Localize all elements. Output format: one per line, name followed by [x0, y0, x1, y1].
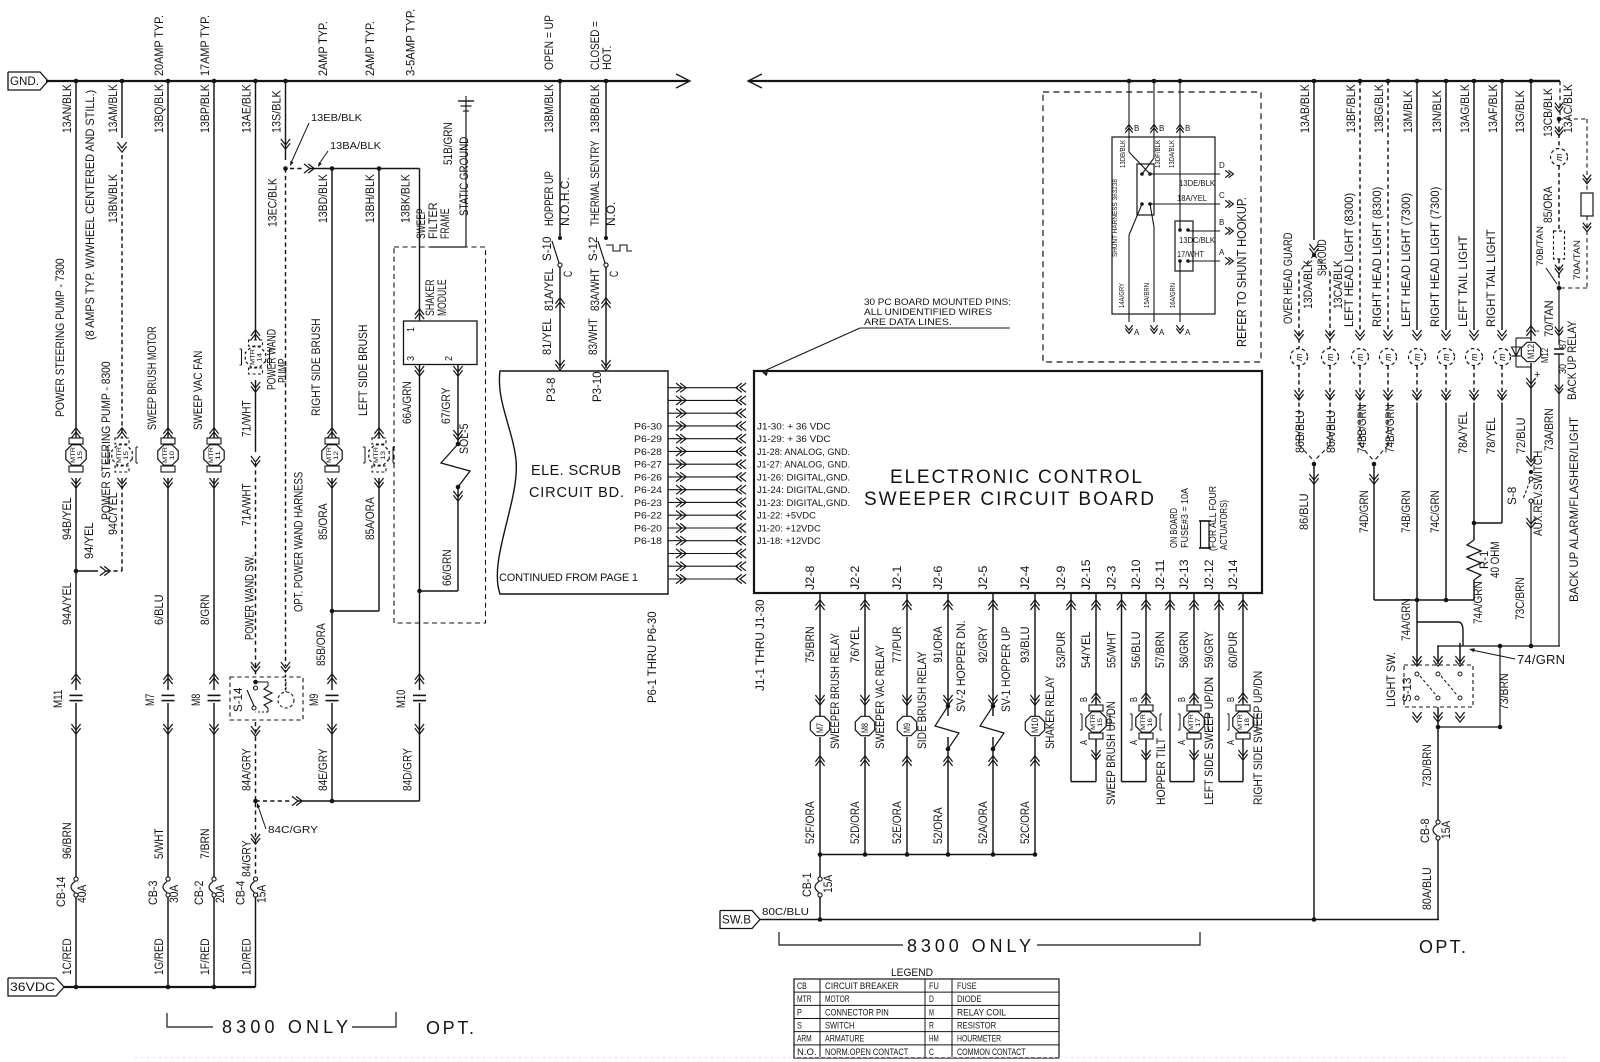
svg-text:52/ORA: 52/ORA	[931, 807, 945, 844]
svg-text:13BD/BLK: 13BD/BLK	[316, 174, 330, 223]
svg-text:85/ORA: 85/ORA	[316, 503, 330, 540]
wire 14A/GRY	[1129, 204, 1142, 235]
svg-text:MODULE: MODULE	[435, 279, 449, 316]
wire 18A/YEL row C	[1150, 203, 1220, 205]
wire 71/WHT	[255, 380, 257, 452]
svg-text:P6-29: P6-29	[634, 434, 662, 445]
wire 13BB/BLK	[604, 79, 609, 84]
svg-text:56/BLU: 56/BLU	[1129, 631, 1143, 668]
wire 1D/RED	[255, 897, 257, 987]
svg-text:NORM.OPEN CONTACT: NORM.OPEN CONTACT	[825, 1047, 908, 1058]
svg-text:P3-10: P3-10	[590, 371, 604, 402]
wire 78A/YEL	[1473, 405, 1475, 523]
svg-text:A: A	[1219, 248, 1225, 257]
svg-text:13DB/BLK: 13DB/BLK	[1120, 140, 1127, 168]
svg-text:MTR: MTR	[162, 447, 169, 463]
svg-text:ARMATURE: ARMATURE	[825, 1034, 864, 1045]
svg-text:15: 15	[77, 451, 84, 460]
wire board pin row P6-26	[676, 472, 682, 481]
svg-text:1G/RED: 1G/RED	[152, 938, 166, 975]
wire board pin row P6-30	[676, 421, 682, 430]
svg-text:m: m	[1441, 353, 1451, 361]
svg-text:13DE/BLK: 13DE/BLK	[1179, 179, 1216, 188]
svg-text:SHAKER RELAY: SHAKER RELAY	[1043, 676, 1057, 749]
svg-text:MTR: MTR	[373, 447, 380, 463]
svg-text:LEFT HEAD LIGHT (7300): LEFT HEAD LIGHT (7300)	[1399, 193, 1413, 327]
svg-text:15A: 15A	[821, 875, 835, 893]
node SW.B flag	[720, 911, 760, 929]
wire 13AM/BLK stub	[120, 79, 125, 84]
svg-text:CIRCUIT BREAKER: CIRCUIT BREAKER	[825, 981, 899, 992]
wire 85/ORA	[331, 478, 333, 611]
svg-text:POWER STEERING PUMP - 7300: POWER STEERING PUMP - 7300	[53, 258, 67, 417]
contact M11	[71, 678, 80, 684]
svg-text:J2-11: J2-11	[1153, 559, 1167, 590]
contact M10	[415, 678, 424, 684]
motor MTR16	[1145, 593, 1147, 705]
motor MTR12	[327, 432, 336, 438]
svg-text:BACK UP ALARM/FLASHER/LIGHT: BACK UP ALARM/FLASHER/LIGHT	[1567, 416, 1581, 602]
svg-text:M9: M9	[902, 723, 912, 733]
lamp right head light (8300)	[1383, 330, 1392, 336]
wire 73A/BRN	[1558, 354, 1560, 646]
wire 13BF/BLK	[1358, 79, 1363, 84]
svg-text:C: C	[929, 1047, 934, 1058]
svg-text:MTR: MTR	[208, 447, 215, 463]
svg-text:13BH/BLK: 13BH/BLK	[363, 174, 377, 223]
svg-text:P6-24: P6-24	[634, 485, 662, 496]
wire 13N/BLK	[1444, 79, 1449, 84]
svg-text:CB-3: CB-3	[146, 880, 160, 905]
wire board pin row data 3	[676, 409, 682, 418]
wire 74A/GRN bus line	[1374, 599, 1474, 601]
relay coil M10	[1025, 716, 1044, 735]
wire 13DE/BLK row D	[1150, 173, 1220, 175]
wire into S-13 b	[1437, 646, 1439, 664]
svg-text:73D/BRN: 73D/BRN	[1420, 744, 1434, 787]
svg-text:81A/YEL: 81A/YEL	[542, 268, 556, 311]
node split overhead/shroud	[1312, 253, 1316, 257]
solenoid valve SV-1	[991, 704, 996, 709]
svg-text:10: 10	[169, 451, 176, 460]
svg-text:B: B	[1185, 124, 1190, 133]
svg-text:83/WHT: 83/WHT	[586, 318, 600, 355]
svg-text:ELE. SCRUB: ELE. SCRUB	[531, 463, 621, 479]
relay coil M8	[855, 716, 874, 735]
svg-text:6/BLU: 6/BLU	[152, 595, 166, 626]
svg-text:N.O.: N.O.	[604, 202, 618, 226]
svg-text:66/GRN: 66/GRN	[440, 549, 454, 586]
resistor 70B/TAN optional	[1554, 231, 1565, 259]
svg-text:74/GRN: 74/GRN	[1517, 652, 1565, 667]
svg-text:SV-1 HOPPER UP: SV-1 HOPPER UP	[999, 627, 1013, 712]
svg-text:J1-20: +12VDC: J1-20: +12VDC	[757, 524, 821, 535]
svg-text:81/YEL: 81/YEL	[540, 318, 554, 355]
motor MTR11	[209, 432, 218, 438]
svg-text:CIRCUIT BD.: CIRCUIT BD.	[529, 485, 624, 501]
svg-text:J2-6: J2-6	[931, 565, 945, 590]
svg-text:13S/BLK: 13S/BLK	[270, 90, 284, 133]
svg-text:HOURMETER: HOURMETER	[957, 1034, 1001, 1045]
svg-text:J2-1: J2-1	[890, 565, 904, 590]
svg-text:J2-9: J2-9	[1054, 565, 1068, 590]
wire 70/TAN	[1558, 288, 1560, 345]
wire 84E/GRY	[331, 703, 333, 801]
svg-text:CB-4: CB-4	[234, 880, 248, 905]
svg-text:8/GRN: 8/GRN	[198, 595, 212, 626]
node junction 66	[417, 589, 422, 594]
svg-text:SWEEPER VAC RELAY: SWEEPER VAC RELAY	[873, 645, 887, 749]
wire 13G/BLK	[1529, 79, 1534, 84]
motor MTR18	[1242, 593, 1244, 705]
svg-text:J2-13: J2-13	[1177, 559, 1191, 590]
svg-text:84A/GRY: 84A/GRY	[240, 748, 254, 791]
wire 84D/GRY	[419, 703, 421, 801]
svg-text:LEGEND: LEGEND	[891, 967, 933, 979]
svg-text:58/GRN: 58/GRN	[1177, 631, 1191, 668]
svg-text:FU: FU	[929, 981, 939, 992]
wire 13AF/BLK	[1500, 79, 1505, 84]
circuit breaker CB-14 40A	[74, 877, 78, 881]
wire 13BN/BLK	[121, 155, 123, 444]
svg-text:13AF/BLK: 13AF/BLK	[1486, 84, 1500, 133]
svg-text:SW.B: SW.B	[722, 915, 751, 927]
svg-text:84C/GRY: 84C/GRY	[268, 825, 318, 836]
svg-text:18: 18	[1244, 718, 1251, 727]
svg-text:13AC/BLK: 13AC/BLK	[1561, 84, 1575, 133]
svg-text:52A/ORA: 52A/ORA	[976, 801, 990, 844]
node junction 94A	[74, 569, 79, 574]
wire board pin row P6-22	[676, 511, 682, 520]
svg-text:C: C	[561, 271, 575, 277]
wire 96/BRN	[75, 703, 77, 877]
wire 94A/YEL	[75, 571, 77, 690]
svg-text:13N/BLK: 13N/BLK	[1430, 90, 1444, 133]
svg-text:HOT.: HOT.	[600, 46, 614, 70]
svg-text:J2-12: J2-12	[1202, 559, 1216, 590]
svg-text:HM: HM	[929, 1034, 939, 1045]
svg-text:70/TAN: 70/TAN	[1542, 300, 1556, 337]
connector block shunt A	[1137, 164, 1154, 215]
wire 74D/GRN	[1369, 474, 1378, 480]
svg-text:S-10: S-10	[540, 236, 554, 261]
wire board pin row P6-18	[676, 536, 682, 545]
svg-text:M: M	[929, 1007, 934, 1018]
svg-text:SWITCH: SWITCH	[825, 1021, 855, 1032]
svg-text:17AMP TYP.: 17AMP TYP.	[198, 15, 212, 76]
svg-text:J2-8: J2-8	[803, 565, 817, 590]
svg-text:2AMP TYP.: 2AMP TYP.	[363, 21, 377, 76]
svg-text:84E/GRY: 84E/GRY	[316, 748, 330, 791]
svg-text:13DC/BLK: 13DC/BLK	[1179, 236, 1216, 245]
wire 74C/GRN	[1445, 405, 1447, 600]
wire 83A/WHT	[605, 267, 607, 368]
lamp right head light (7300)	[1441, 330, 1450, 336]
wire 72/BLU	[1526, 378, 1535, 384]
wire 67/GRY	[453, 366, 462, 372]
label 8300 ONLY bracket (bottom left)	[167, 1013, 213, 1027]
svg-text:SWEEP BRUSH MOTOR: SWEEP BRUSH MOTOR	[145, 326, 159, 430]
motor MTR15	[71, 432, 80, 438]
svg-text:P6-23: P6-23	[634, 498, 662, 509]
svg-text:40 OHM: 40 OHM	[1488, 541, 1502, 578]
wire 84C/GRY jumper	[256, 800, 291, 802]
svg-text:A: A	[1159, 328, 1165, 337]
svg-text:C: C	[607, 271, 621, 277]
wire into S-13 c	[1459, 643, 1461, 664]
svg-text:P6-30: P6-30	[634, 421, 662, 432]
svg-text:-: -	[1536, 325, 1540, 337]
circuit breaker CB-4 15A	[253, 877, 257, 881]
svg-text:94A/YEL: 94A/YEL	[60, 582, 74, 625]
node junction 84	[253, 799, 258, 804]
lamp left head light (7300)	[1412, 330, 1421, 336]
wire 1F/RED	[213, 897, 215, 987]
svg-text:74A/GRN: 74A/GRN	[1471, 581, 1485, 624]
svg-text:13BF/BLK: 13BF/BLK	[1344, 84, 1358, 133]
svg-text:74A/GRN: 74A/GRN	[1399, 598, 1413, 641]
node merge 86/BLU	[1312, 462, 1317, 467]
svg-text:LEFT SIDE BRUSH: LEFT SIDE BRUSH	[356, 325, 370, 417]
svg-text:MTR: MTR	[1237, 714, 1244, 730]
svg-text:J1-27: ANALOG, GND.: J1-27: ANALOG, GND.	[757, 460, 850, 471]
svg-text:52C/ORA: 52C/ORA	[1018, 801, 1032, 844]
wire 71A/WHT	[255, 463, 257, 677]
wire 86/BLU	[1309, 474, 1318, 480]
svg-text:RIGHT SIDE SWEEP UP/DN: RIGHT SIDE SWEEP UP/DN	[1251, 671, 1265, 805]
wire 52/ORA	[943, 760, 952, 766]
wire 52/ORA bus	[820, 854, 1035, 856]
node junction 52D/ORA	[863, 852, 868, 857]
lamp right tail light	[1497, 330, 1506, 336]
svg-text:72/BLU: 72/BLU	[1514, 417, 1528, 454]
svg-text:RIGHT SIDE BRUSH: RIGHT SIDE BRUSH	[309, 318, 323, 416]
box ELECTRONIC CONTROL SWEEPER CIRCUIT BOARD	[754, 371, 1262, 593]
svg-text:m: m	[1554, 153, 1564, 161]
svg-text:ARM: ARM	[797, 1034, 812, 1045]
svg-text:76/YEL: 76/YEL	[848, 626, 862, 663]
svg-text:AUX.REV.SWITCH: AUX.REV.SWITCH	[1531, 451, 1545, 536]
svg-text:16: 16	[1147, 718, 1154, 727]
svg-text:CONTINUED FROM PAGE 1: CONTINUED FROM PAGE 1	[499, 572, 638, 584]
wire 13M/BLK	[1415, 79, 1420, 84]
svg-text:11: 11	[215, 450, 222, 460]
wire board pin row data 2	[676, 396, 682, 405]
node junction 70/TAN	[1557, 286, 1562, 291]
svg-text:FUSE: FUSE	[957, 981, 977, 992]
contact M12 (30-87)	[1554, 348, 1564, 350]
wire out S-13 a	[1412, 712, 1421, 718]
svg-text:S-14: S-14	[231, 687, 245, 712]
wire 74/GRN jumper	[1417, 621, 1458, 623]
svg-text:13BQ/BLK: 13BQ/BLK	[152, 84, 166, 133]
svg-text:52E/ORA: 52E/ORA	[890, 801, 904, 844]
svg-text:55/WHT: 55/WHT	[1105, 631, 1119, 668]
wire 16A/GRN	[1179, 261, 1181, 322]
wire 76/YEL	[864, 593, 866, 716]
motor MTR13 optional	[374, 432, 383, 438]
svg-text:13BN/BLK: 13BN/BLK	[106, 174, 120, 223]
wire 51B/GRN static ground	[465, 101, 467, 247]
svg-text:B: B	[1177, 697, 1188, 702]
svg-text:13AN/BLK: 13AN/BLK	[60, 84, 74, 133]
wire 15A/BRN	[1150, 204, 1154, 227]
svg-text:FUSE#3 = 10A: FUSE#3 = 10A	[1180, 488, 1191, 548]
svg-text:LEFT TAIL LIGHT: LEFT TAIL LIGHT	[1456, 235, 1470, 327]
svg-text:78A/YEL: 78A/YEL	[1456, 411, 1470, 454]
svg-text:M10: M10	[394, 689, 408, 708]
svg-text:71A/WHT: 71A/WHT	[240, 483, 254, 526]
table legend	[794, 979, 1059, 1058]
svg-text:B: B	[1219, 218, 1224, 227]
svg-text:13AB/BLK: 13AB/BLK	[1298, 84, 1312, 133]
wire 13BH/BLK	[378, 169, 380, 445]
wire board pin row P6-27	[676, 460, 682, 469]
wire actuator loop 15a	[1070, 593, 1072, 782]
wire into S-13 a	[1412, 656, 1421, 662]
svg-text:73/BRN: 73/BRN	[1497, 673, 1511, 710]
svg-text:J2-14: J2-14	[1226, 559, 1240, 590]
svg-text:13M/BLK: 13M/BLK	[1401, 90, 1415, 133]
svg-text:J1-18: +12VDC: J1-18: +12VDC	[757, 536, 821, 547]
wire to CB-1	[819, 855, 821, 878]
svg-text:M10: M10	[1030, 718, 1040, 733]
switch S-10	[558, 236, 562, 240]
svg-text:P6-22: P6-22	[634, 511, 662, 522]
svg-text:74C/GRN: 74C/GRN	[1428, 490, 1442, 533]
svg-text:74BA/GRN: 74BA/GRN	[1383, 404, 1397, 453]
svg-text:MTR: MTR	[1188, 714, 1195, 730]
wire 73 lower link	[1438, 726, 1500, 728]
svg-text:15: 15	[1097, 718, 1104, 727]
svg-text:DIODE: DIODE	[957, 994, 982, 1005]
svg-text:MTR: MTR	[70, 447, 77, 463]
svg-text:B: B	[1079, 697, 1090, 702]
wire board pin row data 15	[676, 562, 682, 571]
relay coil M12 back-up	[1521, 342, 1540, 361]
wire 73D/BRN	[1437, 727, 1439, 820]
wire 13AE/BLK	[253, 79, 258, 84]
wire 13CB/BLK	[1559, 81, 1561, 119]
svg-text:36VDC: 36VDC	[10, 982, 55, 994]
relay coil M9	[897, 716, 916, 735]
svg-text:J1-23: DIGITAL,GND.: J1-23: DIGITAL,GND.	[757, 498, 850, 509]
svg-text:m: m	[1497, 353, 1507, 361]
wire 80C/BLU	[819, 897, 821, 920]
svg-text:86A/BLU: 86A/BLU	[1324, 410, 1338, 453]
svg-text:BACK UP RELAY: BACK UP RELAY	[1565, 321, 1579, 400]
svg-text:m: m	[1383, 353, 1393, 361]
svg-text:15: 15	[123, 451, 130, 460]
svg-text:ELECTRONIC CONTROL: ELECTRONIC CONTROL	[890, 467, 1142, 488]
wire 74B/GRN	[1416, 405, 1418, 600]
svg-text:C: C	[1219, 191, 1225, 200]
wire 94C/YEL	[121, 478, 123, 571]
svg-text:OVER HEAD GUARD: OVER HEAD GUARD	[1281, 232, 1295, 324]
svg-text:13DA/BLK: 13DA/BLK	[1301, 260, 1315, 309]
svg-text:93/BLU: 93/BLU	[1018, 626, 1032, 663]
svg-text:CB: CB	[797, 981, 807, 992]
svg-text:13G/BLK: 13G/BLK	[1513, 90, 1527, 133]
connector block shunt B	[1175, 221, 1193, 271]
wire 13BG/BLK	[1386, 79, 1391, 84]
svg-text:54/YEL: 54/YEL	[1079, 631, 1093, 668]
svg-text:P6-27: P6-27	[634, 460, 662, 471]
svg-text:1C/RED: 1C/RED	[60, 938, 74, 975]
svg-text:J2-15: J2-15	[1079, 559, 1093, 590]
svg-text:P3-8: P3-8	[544, 377, 558, 402]
svg-text:13CB/BLK: 13CB/BLK	[1541, 88, 1555, 137]
wire board pin row P6-23	[676, 498, 682, 507]
wire 75/BRN	[819, 593, 821, 716]
wire 6/BLU	[167, 478, 169, 690]
svg-text:MTR: MTR	[250, 349, 257, 365]
circuit breaker CB-8 15A	[1436, 820, 1440, 824]
lamp in S-14	[278, 692, 294, 708]
svg-text:M7: M7	[143, 694, 157, 706]
svg-text:THERMAL SENTRY: THERMAL SENTRY	[588, 141, 602, 226]
svg-text:OPT. POWER WAND HARNESS: OPT. POWER WAND HARNESS	[292, 472, 306, 612]
svg-text:m: m	[1325, 353, 1335, 361]
shaker module box	[404, 321, 478, 365]
wire 52C/ORA	[1030, 760, 1039, 766]
svg-text:SV-2 HOPPER DN.: SV-2 HOPPER DN.	[954, 621, 968, 713]
svg-text:70A/TAN: 70A/TAN	[1572, 240, 1583, 280]
wire 13DA/BLK overhead guard lamp	[1298, 272, 1300, 349]
svg-text:MTR: MTR	[326, 447, 333, 463]
svg-text:MOTOR: MOTOR	[825, 994, 850, 1005]
circuit breaker CB-2 20A	[212, 877, 216, 881]
contact M9	[327, 678, 336, 684]
wire ground bus (right)	[748, 80, 1560, 82]
svg-text:M12: M12	[1540, 348, 1551, 363]
svg-text:SHROUD: SHROUD	[1315, 239, 1329, 276]
svg-text:73A/BRN: 73A/BRN	[1542, 408, 1556, 451]
svg-text:M8: M8	[860, 723, 870, 733]
wire 36VDC bus	[64, 986, 256, 988]
wire 13BP/BLK	[212, 79, 217, 84]
svg-text:J1-29: + 36 VDC: J1-29: + 36 VDC	[757, 434, 831, 445]
svg-text:A: A	[1226, 740, 1237, 745]
wire 74A/GRN to light switch	[1416, 600, 1418, 665]
svg-text:13: 13	[380, 451, 387, 460]
svg-text:M8: M8	[189, 694, 203, 706]
wire 1G/RED	[167, 897, 169, 987]
thermal element S-12	[606, 245, 632, 251]
svg-text:51B/GRN: 51B/GRN	[441, 122, 455, 165]
svg-text:COMMON CONTACT: COMMON CONTACT	[957, 1047, 1026, 1058]
wire 13BD-13BH link	[290, 168, 302, 170]
svg-text:73C/BRN: 73C/BRN	[1513, 577, 1527, 620]
svg-text:53/PUR: 53/PUR	[1054, 631, 1068, 668]
svg-text:m: m	[1355, 353, 1365, 361]
svg-text:J1-30: + 36 VDC: J1-30: + 36 VDC	[757, 421, 831, 432]
svg-text:13AM/BLK: 13AM/BLK	[106, 84, 120, 133]
svg-text:13EC/BLK: 13EC/BLK	[266, 178, 280, 227]
svg-text:M7: M7	[815, 723, 825, 733]
svg-text:84D/GRY: 84D/GRY	[401, 748, 415, 791]
svg-text:77/PUR: 77/PUR	[890, 626, 904, 663]
svg-text:13EB/BLK: 13EB/BLK	[311, 113, 362, 124]
svg-text:CB-14: CB-14	[54, 876, 68, 907]
svg-text:13DF/BLK: 13DF/BLK	[1155, 140, 1162, 168]
motor MTR14 power wand pump	[251, 334, 260, 340]
svg-text:m: m	[1412, 353, 1422, 361]
svg-text:RESISTOR: RESISTOR	[957, 1021, 996, 1032]
svg-text:80A/BLU: 80A/BLU	[1420, 867, 1434, 910]
wire 77/PUR	[906, 593, 908, 716]
wire 73 bus line	[1437, 645, 1560, 647]
